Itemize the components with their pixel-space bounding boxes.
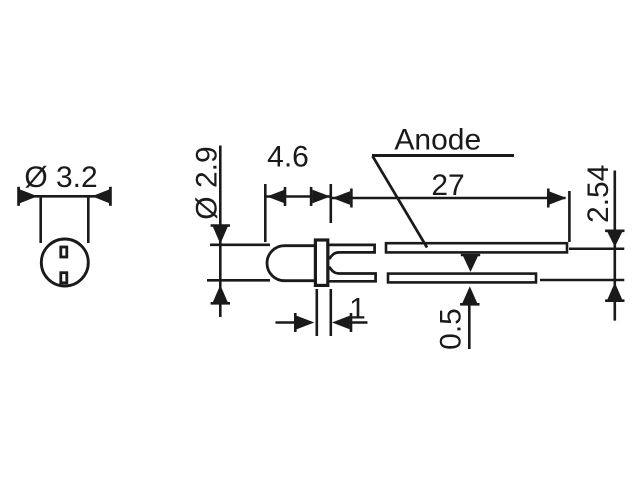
svg-text:Ø 2.9: Ø 2.9	[191, 146, 224, 219]
arrow 27 left bar	[350, 189, 353, 208]
arrow right D3.2	[92, 189, 109, 203]
dim line 4.6	[265, 195, 331, 198]
dim line 0.5	[468, 301, 471, 349]
dim line 27	[331, 197, 566, 200]
cathode lead hole	[61, 273, 67, 283]
extension line D2.9 bottom	[207, 279, 270, 282]
extension line 1 right	[329, 289, 332, 336]
arrow down 2.54 bar	[605, 230, 624, 233]
arrow 1 right	[332, 316, 350, 330]
arrow up 2.54	[607, 283, 622, 300]
anode lead long segment	[386, 243, 567, 252]
arrow 4.6 left bar	[284, 187, 287, 206]
arrow 1 right bar	[350, 313, 353, 332]
arrow up D2.9 bar	[211, 302, 230, 305]
arrow 1 left bar	[294, 313, 297, 332]
extension line 27 right	[568, 191, 571, 242]
dim tail bar left D3.2	[17, 187, 20, 206]
arrow down 0.5 bar	[461, 254, 480, 257]
dim line 2.54	[613, 171, 616, 321]
extension line left D3.2	[39, 197, 42, 243]
arrow up 0.5	[462, 286, 477, 303]
svg-text:0.5: 0.5	[434, 308, 467, 350]
arrow 27 left	[332, 191, 350, 205]
extension line D2.9 top	[210, 244, 270, 247]
anode lead stub	[328, 245, 375, 259]
anode lead hole	[61, 247, 67, 257]
arrow down D2.9 bar	[211, 224, 230, 227]
dim tail 1 left	[276, 321, 297, 324]
extension line right D3.2	[87, 197, 90, 243]
svg-text:Anode: Anode	[394, 123, 481, 156]
Anode underline	[372, 154, 514, 157]
svg-text:Ø 3.2: Ø 3.2	[24, 161, 97, 194]
arrow up 0.5 bar	[460, 303, 479, 306]
arrow 4.6 right bar	[310, 187, 313, 206]
arrow 4.6 right	[312, 190, 330, 204]
LED body dome	[267, 246, 316, 281]
extension line 2.54 upper	[569, 248, 624, 251]
cathode lead long segment	[388, 274, 536, 283]
LED bottom view circle	[41, 239, 88, 286]
cathode lead stub	[328, 268, 376, 282]
dim tail 1 right	[350, 321, 368, 324]
dim line D2.9	[219, 146, 222, 318]
arrow up D2.9	[213, 285, 228, 302]
LED flange	[315, 240, 327, 285]
arrow left D3.2	[20, 189, 38, 203]
svg-text:2.54: 2.54	[582, 165, 615, 223]
dim tail bar right D3.2	[109, 187, 112, 206]
dim line D3.2	[18, 195, 110, 198]
extension line 1 left	[315, 289, 318, 336]
extension line 2.54 lower	[540, 279, 624, 282]
Anode leader line	[373, 156, 428, 248]
svg-text:1: 1	[349, 293, 366, 326]
arrow 4.6 left	[267, 190, 285, 204]
arrow up 2.54 bar	[605, 299, 624, 302]
arrow down 2.54	[607, 232, 622, 247]
arrow down 0.5	[463, 256, 478, 272]
extension line 4.6 left	[264, 184, 267, 242]
svg-text:4.6: 4.6	[267, 140, 309, 173]
arrow 27 right bar	[547, 189, 550, 208]
arrow down D2.9	[213, 227, 228, 245]
extension line 4.6 right / 27 left	[329, 184, 332, 223]
arrow 1 left	[296, 316, 314, 330]
arrow 27 right	[549, 191, 567, 205]
